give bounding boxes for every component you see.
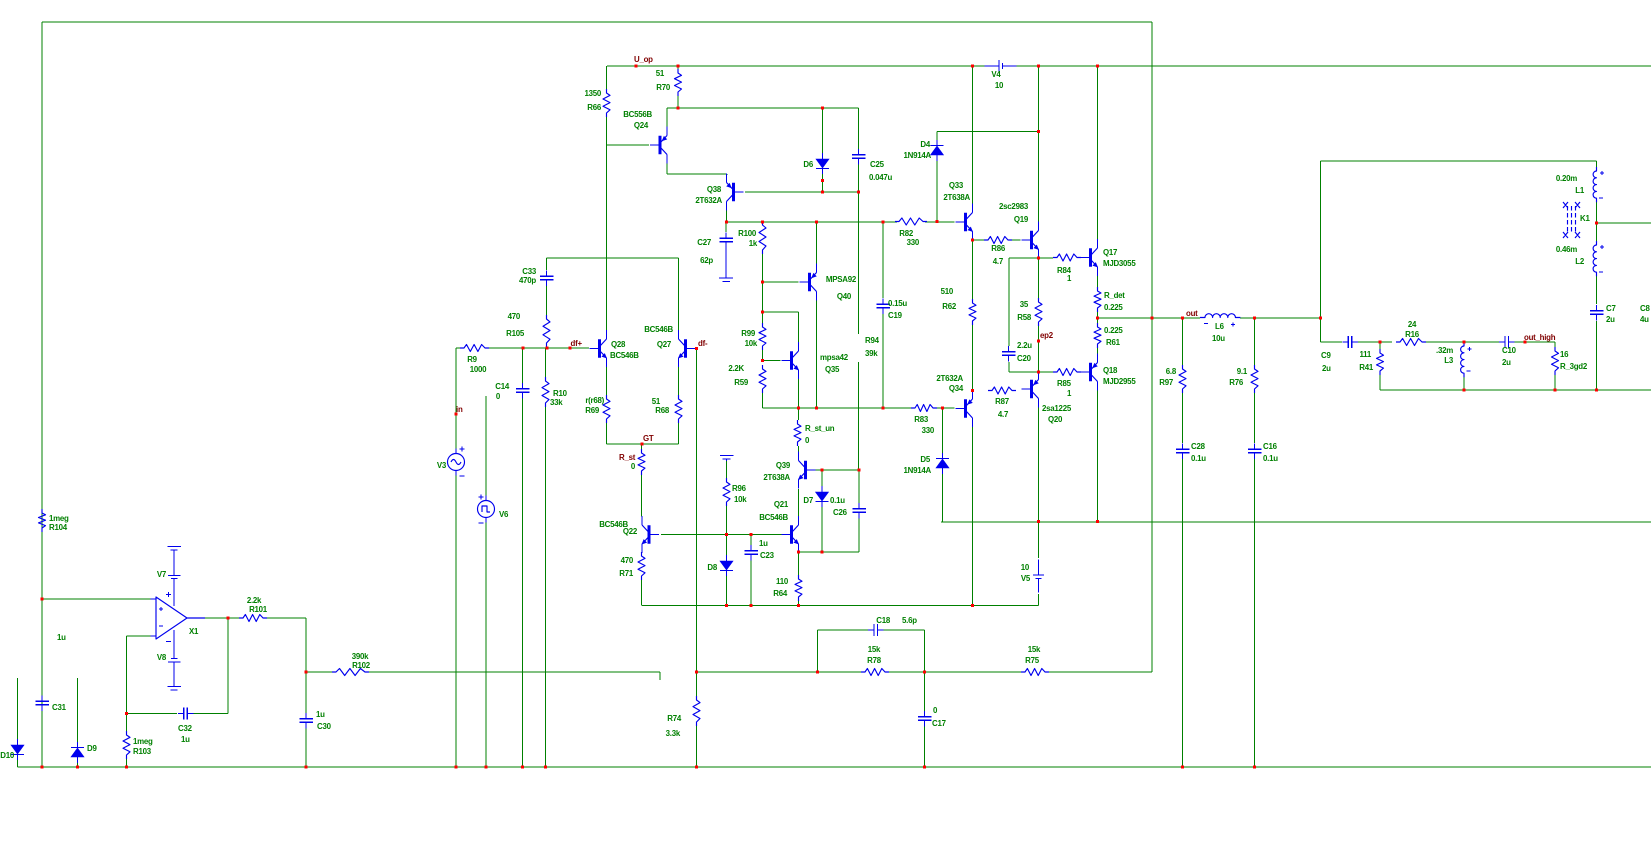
svg-text:C30: C30 <box>317 722 332 731</box>
svg-text:L1: L1 <box>1575 186 1585 195</box>
svg-text:470: 470 <box>621 556 634 565</box>
svg-text:390k: 390k <box>352 652 369 661</box>
svg-text:Q20: Q20 <box>1048 415 1063 424</box>
svg-text:1u: 1u <box>316 710 325 719</box>
svg-text:2sc2983: 2sc2983 <box>999 202 1029 211</box>
svg-text:BC556B: BC556B <box>623 110 652 119</box>
svg-text:1N914A: 1N914A <box>904 466 932 475</box>
svg-text:BC546B: BC546B <box>759 513 788 522</box>
svg-text:R68: R68 <box>655 406 670 415</box>
svg-text:R75: R75 <box>1025 656 1040 665</box>
svg-text:Q38: Q38 <box>707 185 722 194</box>
svg-text:V5: V5 <box>1021 574 1031 583</box>
svg-text:2T638A: 2T638A <box>943 193 970 202</box>
svg-text:2T638A: 2T638A <box>763 473 790 482</box>
svg-text:ep2: ep2 <box>1040 331 1054 340</box>
svg-text:V4: V4 <box>991 70 1001 79</box>
svg-text:R9: R9 <box>467 355 477 364</box>
svg-text:6.8: 6.8 <box>1166 367 1177 376</box>
svg-text:R_3gd2: R_3gd2 <box>1560 362 1588 371</box>
svg-text:C25: C25 <box>870 160 885 169</box>
svg-text:mpsa42: mpsa42 <box>820 353 849 362</box>
svg-text:10: 10 <box>995 81 1004 90</box>
svg-text:10k: 10k <box>745 339 758 348</box>
svg-text:Q19: Q19 <box>1014 215 1029 224</box>
svg-text:R87: R87 <box>995 397 1010 406</box>
svg-text:R66: R66 <box>587 103 602 112</box>
svg-text:1u: 1u <box>57 633 66 642</box>
svg-text:R62: R62 <box>942 302 957 311</box>
svg-text:L3: L3 <box>1444 356 1454 365</box>
svg-text:R_det: R_det <box>1104 291 1125 300</box>
svg-text:0.46m: 0.46m <box>1556 245 1577 254</box>
svg-text:Q24: Q24 <box>634 121 649 130</box>
svg-text:330: 330 <box>922 426 935 435</box>
svg-text:Q28: Q28 <box>611 340 626 349</box>
svg-text:df-: df- <box>698 339 708 348</box>
svg-text:X1: X1 <box>189 627 199 636</box>
svg-text:10u: 10u <box>1212 334 1225 343</box>
svg-text:R97: R97 <box>1159 378 1174 387</box>
svg-text:D10: D10 <box>0 751 15 760</box>
svg-text:D7: D7 <box>803 496 813 505</box>
svg-text:2.2u: 2.2u <box>1017 341 1032 350</box>
svg-text:C27: C27 <box>697 238 712 247</box>
svg-text:0.1u: 0.1u <box>830 496 845 505</box>
svg-text:9.1: 9.1 <box>1237 367 1248 376</box>
svg-text:in: in <box>456 405 463 414</box>
svg-text:510: 510 <box>941 287 954 296</box>
svg-text:out_high: out_high <box>1524 333 1556 342</box>
svg-text:39k: 39k <box>865 349 878 358</box>
svg-text:330: 330 <box>907 238 920 247</box>
svg-text:2u: 2u <box>1322 364 1331 373</box>
svg-text:1N914A: 1N914A <box>904 151 932 160</box>
svg-text:0.15u: 0.15u <box>888 299 907 308</box>
svg-text:C26: C26 <box>833 508 848 517</box>
svg-text:R103: R103 <box>133 747 152 756</box>
svg-text:D5: D5 <box>920 455 930 464</box>
svg-text:2T632A: 2T632A <box>936 374 963 383</box>
svg-text:C9: C9 <box>1321 351 1331 360</box>
svg-text:51: 51 <box>656 69 665 78</box>
svg-text:C32: C32 <box>178 724 193 733</box>
svg-text:R101: R101 <box>249 605 268 614</box>
svg-text:C20: C20 <box>1017 354 1032 363</box>
svg-text:R16: R16 <box>1405 330 1420 339</box>
svg-text:2.2K: 2.2K <box>728 364 744 373</box>
svg-text:R_st: R_st <box>619 453 636 462</box>
svg-text:D8: D8 <box>707 563 717 572</box>
svg-text:C31: C31 <box>52 703 67 712</box>
svg-text:V3: V3 <box>437 461 447 470</box>
svg-text:33k: 33k <box>550 398 563 407</box>
svg-text:1k: 1k <box>749 239 758 248</box>
svg-text:D6: D6 <box>803 160 813 169</box>
svg-text:R10: R10 <box>553 389 568 398</box>
svg-text:10: 10 <box>1021 563 1030 572</box>
svg-text:R74: R74 <box>667 714 682 723</box>
svg-text:4.7: 4.7 <box>998 410 1009 419</box>
svg-text:3.3k: 3.3k <box>666 729 681 738</box>
svg-text:4u: 4u <box>1640 315 1649 324</box>
svg-text:Q21: Q21 <box>774 500 789 509</box>
svg-text:1000: 1000 <box>470 365 487 374</box>
svg-text:Q18: Q18 <box>1103 366 1118 375</box>
svg-text:C7: C7 <box>1606 304 1616 313</box>
svg-text:1meg: 1meg <box>49 514 69 523</box>
svg-text:51: 51 <box>652 397 661 406</box>
svg-text:R82: R82 <box>899 229 914 238</box>
svg-text:R78: R78 <box>867 656 882 665</box>
svg-text:R99: R99 <box>741 329 756 338</box>
svg-text:R85: R85 <box>1057 379 1072 388</box>
svg-text:Q39: Q39 <box>776 461 791 470</box>
svg-text:C16: C16 <box>1263 442 1278 451</box>
svg-text:R70: R70 <box>656 83 671 92</box>
svg-text:2u: 2u <box>1606 315 1615 324</box>
svg-text:470: 470 <box>508 312 521 321</box>
svg-text:2sa1225: 2sa1225 <box>1042 404 1072 413</box>
svg-text:R41: R41 <box>1359 363 1374 372</box>
svg-text:V7: V7 <box>157 570 167 579</box>
svg-text:1meg: 1meg <box>133 737 153 746</box>
svg-text:C10: C10 <box>1502 346 1517 355</box>
svg-text:MJD2955: MJD2955 <box>1103 377 1136 386</box>
svg-text:110: 110 <box>776 577 789 586</box>
svg-text:0.225: 0.225 <box>1104 326 1123 335</box>
svg-text:R_st_un: R_st_un <box>805 424 835 433</box>
svg-text:C28: C28 <box>1191 442 1206 451</box>
svg-text:Q35: Q35 <box>825 365 840 374</box>
svg-text:U_op: U_op <box>634 55 653 64</box>
svg-text:out: out <box>1186 309 1198 318</box>
svg-text:K1: K1 <box>1580 214 1590 223</box>
svg-text:Q22: Q22 <box>623 527 638 536</box>
svg-text:R59: R59 <box>734 378 749 387</box>
svg-text:111: 111 <box>1359 350 1371 359</box>
svg-text:15k: 15k <box>1028 645 1041 654</box>
svg-text:C19: C19 <box>888 311 903 320</box>
svg-text:r(r68): r(r68) <box>585 396 604 405</box>
svg-text:R100: R100 <box>738 229 757 238</box>
svg-text:C8: C8 <box>1640 304 1650 313</box>
svg-text:4.7: 4.7 <box>993 257 1004 266</box>
svg-text:C17: C17 <box>932 719 947 728</box>
svg-text:35: 35 <box>1020 300 1029 309</box>
svg-text:R94: R94 <box>865 336 880 345</box>
svg-text:BC546B: BC546B <box>610 351 639 360</box>
svg-text:V8: V8 <box>157 653 167 662</box>
svg-text:R104: R104 <box>49 523 68 532</box>
svg-text:470p: 470p <box>519 276 536 285</box>
svg-text:R102: R102 <box>352 661 371 670</box>
svg-text:0.225: 0.225 <box>1104 303 1123 312</box>
svg-text:C14: C14 <box>495 382 510 391</box>
svg-text:Q33: Q33 <box>949 181 964 190</box>
svg-text:1u: 1u <box>181 735 190 744</box>
svg-text:0.1u: 0.1u <box>1263 454 1278 463</box>
svg-text:D9: D9 <box>87 744 97 753</box>
svg-text:2u: 2u <box>1502 358 1511 367</box>
svg-text:1u: 1u <box>759 539 768 548</box>
svg-text:R58: R58 <box>1017 313 1032 322</box>
svg-text:0.1u: 0.1u <box>1191 454 1206 463</box>
svg-text:L6: L6 <box>1215 322 1225 331</box>
svg-text:R61: R61 <box>1106 338 1121 347</box>
svg-text:15k: 15k <box>868 645 881 654</box>
svg-text:10k: 10k <box>734 495 747 504</box>
svg-text:L2: L2 <box>1575 257 1585 266</box>
svg-text:R96: R96 <box>732 484 747 493</box>
svg-text:R83: R83 <box>914 415 929 424</box>
svg-text:Q40: Q40 <box>837 292 852 301</box>
svg-text:5.6p: 5.6p <box>902 616 917 625</box>
svg-text:R69: R69 <box>585 406 600 415</box>
svg-text:2.2k: 2.2k <box>247 596 262 605</box>
svg-text:16: 16 <box>1560 350 1569 359</box>
svg-text:Q34: Q34 <box>949 384 964 393</box>
svg-text:GT: GT <box>643 434 654 443</box>
svg-text:C18: C18 <box>876 616 891 625</box>
svg-text:24: 24 <box>1408 320 1417 329</box>
svg-text:R71: R71 <box>619 569 634 578</box>
svg-text:Q17: Q17 <box>1103 248 1118 257</box>
svg-text:C23: C23 <box>760 551 775 560</box>
svg-text:df+: df+ <box>571 339 583 348</box>
svg-text:C33: C33 <box>522 267 537 276</box>
svg-text:R64: R64 <box>773 589 788 598</box>
svg-text:0.20m: 0.20m <box>1556 174 1577 183</box>
svg-text:Q27: Q27 <box>657 340 672 349</box>
svg-text:1350: 1350 <box>584 89 601 98</box>
svg-text:62p: 62p <box>700 256 713 265</box>
svg-text:2T632A: 2T632A <box>695 196 722 205</box>
svg-text:V6: V6 <box>499 510 509 519</box>
svg-text:R86: R86 <box>991 244 1006 253</box>
svg-text:D4: D4 <box>920 140 930 149</box>
svg-text:0.047u: 0.047u <box>869 173 892 182</box>
svg-text:R105: R105 <box>506 329 525 338</box>
svg-text:R76: R76 <box>1229 378 1244 387</box>
svg-text:BC546B: BC546B <box>644 325 673 334</box>
svg-text:MPSA92: MPSA92 <box>826 275 857 284</box>
svg-text:MJD3055: MJD3055 <box>1103 259 1136 268</box>
svg-text:.32m: .32m <box>1436 346 1453 355</box>
